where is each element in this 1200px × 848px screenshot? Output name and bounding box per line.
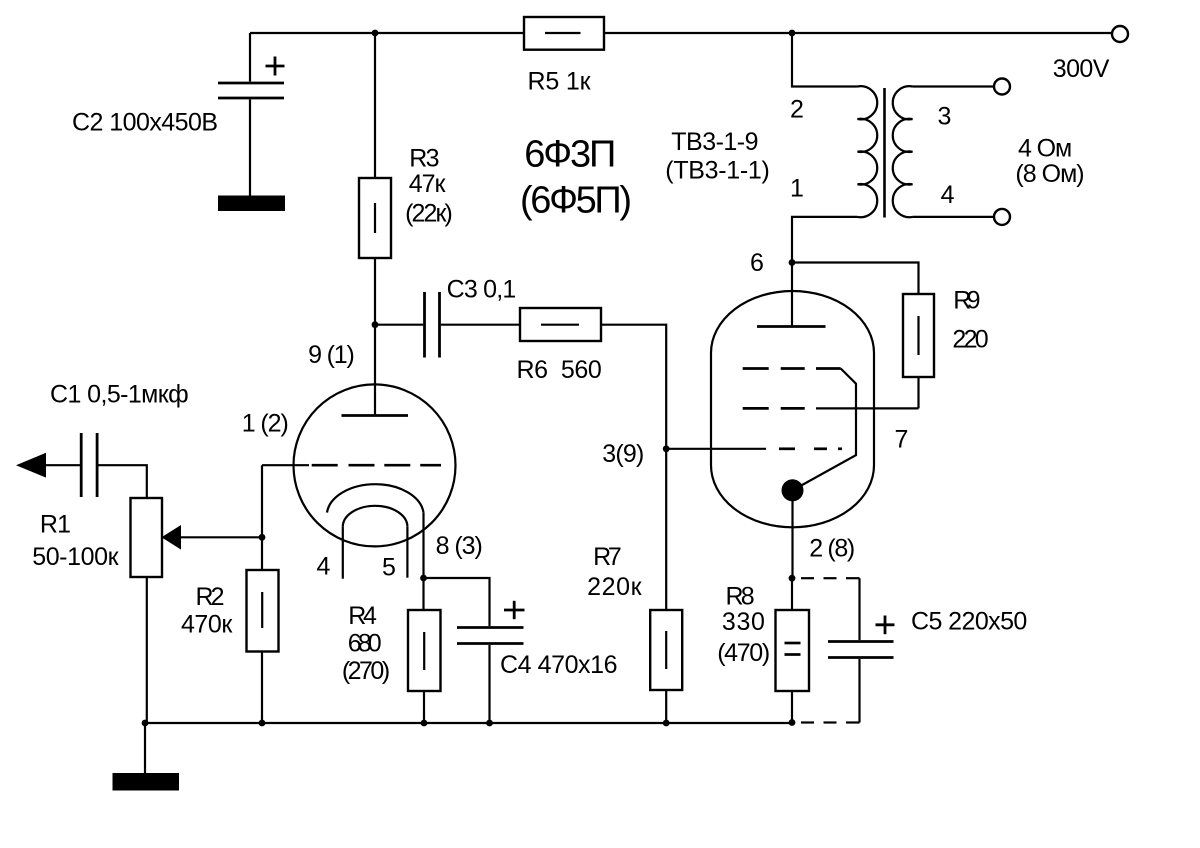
- tube V2 cathode dot: [782, 479, 804, 501]
- ground (main): [113, 773, 180, 791]
- svg-text:680: 680: [348, 630, 382, 658]
- capacitor C2: [218, 83, 284, 98]
- potentiometer R1: [131, 498, 163, 577]
- svg-text:1 (2): 1 (2): [242, 410, 289, 438]
- capacitor C1: [81, 433, 97, 497]
- node junction cathode V2 / R8: [789, 575, 796, 582]
- svg-text:6Ф3П: 6Ф3П: [524, 133, 616, 175]
- wire R3 bottom to tube anode: [374, 258, 376, 416]
- tube V1 cathode arc: [327, 484, 424, 512]
- svg-text:R2: R2: [196, 583, 225, 611]
- svg-text:220к: 220к: [587, 573, 643, 601]
- svg-text:R6 560: R6 560: [517, 356, 602, 384]
- node junction C4/ground: [486, 720, 493, 727]
- resistor R7: [650, 610, 682, 690]
- C4 plus sign: [504, 601, 525, 619]
- wire C1 to R1: [99, 465, 147, 498]
- svg-text:(22к): (22к): [405, 200, 453, 228]
- resistor R2: [247, 570, 279, 652]
- wire R2 bottom to ground bus: [261, 652, 263, 724]
- svg-text:4 Ом: 4 Ом: [1018, 134, 1072, 162]
- wire R8 bottom: [791, 691, 793, 723]
- svg-text:C2 100x450В: C2 100x450В: [72, 109, 218, 137]
- wire V2 cathode lead: [791, 490, 793, 578]
- transformer T1 secondary winding: [893, 86, 913, 217]
- svg-text:6: 6: [750, 249, 764, 277]
- wire V2 anode lead: [791, 263, 793, 327]
- resistor R3: [359, 178, 391, 258]
- svg-text:R7: R7: [593, 543, 622, 571]
- node junction top bus / R3: [372, 30, 379, 37]
- node junction R1/ground: [142, 720, 149, 727]
- svg-text:47к: 47к: [409, 170, 447, 198]
- transformer T1 primary winding: [858, 86, 878, 217]
- tube V1 triode envelope: [294, 384, 456, 546]
- wire to C3: [375, 324, 423, 326]
- tube V2 grid row 2 dashes: [743, 407, 805, 410]
- svg-text:5: 5: [382, 554, 396, 582]
- tube V2 pentode envelope: [711, 291, 874, 527]
- svg-text:C5 220x50: C5 220x50: [911, 607, 1027, 635]
- wire node 6 to R9: [792, 263, 919, 295]
- wire C2 top lead: [249, 33, 251, 82]
- svg-text:R3: R3: [409, 145, 439, 173]
- svg-text:9 (1): 9 (1): [308, 341, 355, 369]
- wire cathode to C4: [424, 578, 490, 626]
- svg-text:470к: 470к: [181, 611, 233, 639]
- svg-text:3: 3: [937, 103, 951, 131]
- resistor R9: [903, 294, 934, 377]
- ground (C2): [218, 196, 285, 212]
- svg-text:(6Ф5П): (6Ф5П): [520, 180, 632, 222]
- wire C3 to R6: [441, 324, 520, 326]
- svg-text:4: 4: [317, 552, 331, 580]
- svg-text:(8 Ом): (8 Ом): [1015, 160, 1084, 188]
- capacitor C3: [425, 292, 440, 358]
- svg-text:R5 1к: R5 1к: [528, 68, 592, 96]
- wire R9 bottom: [917, 377, 919, 408]
- wire cathode V2 to R8: [791, 578, 793, 610]
- svg-text:R1: R1: [40, 510, 71, 538]
- svg-text:1: 1: [790, 175, 804, 203]
- wire secondary top lead: [913, 85, 995, 87]
- wire top supply bus: [250, 32, 1112, 34]
- node junction R3 / C3: [372, 321, 379, 328]
- tube V1 heater arc: [343, 506, 408, 527]
- svg-text:2: 2: [790, 96, 804, 124]
- svg-text:C4 470x16: C4 470x16: [500, 651, 618, 679]
- resistor R4: [408, 610, 441, 691]
- wire C4 bottom: [488, 645, 490, 723]
- node junction R4/ground: [421, 720, 428, 727]
- wire secondary bottom lead: [913, 216, 995, 218]
- tube V2 grid row 1 dashes: [743, 367, 841, 370]
- svg-text:50-100к: 50-100к: [32, 543, 119, 571]
- wire input to C1: [46, 464, 80, 466]
- R1 wiper arrow: [181, 536, 262, 538]
- C2 plus sign: [266, 57, 285, 76]
- transformer core: [883, 88, 886, 218]
- svg-text:(ТВ3-1-1): (ТВ3-1-1): [665, 157, 770, 185]
- wire C2 bottom lead: [249, 100, 251, 196]
- tube V1 grid dashes: [312, 464, 441, 467]
- beam plate connector to cathode: [794, 369, 856, 490]
- node junction top bus / transformer: [789, 30, 796, 37]
- svg-text:220: 220: [952, 325, 988, 353]
- wire ground stem: [144, 723, 146, 773]
- dashed wire C5 top: [801, 577, 860, 579]
- wire ground bus: [145, 722, 792, 724]
- svg-text:4: 4: [941, 181, 955, 209]
- terminal secondary top: [994, 79, 1010, 95]
- tube V1 heater pin 4 lead: [342, 527, 344, 579]
- terminal 300V: [1112, 26, 1128, 42]
- wire R4 bottom: [423, 691, 425, 723]
- wire grid feed vertical: [261, 465, 263, 570]
- svg-text:ТВ3-1-9: ТВ3-1-9: [671, 128, 758, 156]
- svg-text:C1 0,5-1мкф: C1 0,5-1мкф: [50, 381, 189, 409]
- wire C5 bottom vertical: [858, 659, 860, 723]
- svg-text:8 (3): 8 (3): [436, 532, 483, 560]
- wire R3 top lead: [374, 33, 376, 178]
- input arrow: [16, 453, 46, 478]
- wire cathode V1: [422, 513, 424, 578]
- tube V2 anode plate: [757, 325, 826, 328]
- svg-text:300V: 300V: [1053, 55, 1110, 83]
- node junction grid2 tap: [663, 445, 670, 452]
- svg-text:330: 330: [722, 608, 765, 636]
- resistor R6: [520, 308, 601, 341]
- tube V1 anode plate: [342, 414, 409, 417]
- node junction cathode V1: [420, 575, 427, 582]
- capacitor C5: [828, 642, 894, 658]
- terminal secondary bottom: [994, 209, 1010, 225]
- tube V1 heater pin 5 lead: [406, 527, 408, 578]
- C5 plus sign: [876, 616, 895, 635]
- capacitor C4: [457, 628, 524, 644]
- wire R1 bottom to ground bus: [146, 577, 148, 723]
- dashed wire C5 bottom: [801, 721, 860, 723]
- node junction anode 6: [789, 259, 796, 266]
- wire R6 output down to ground: [601, 325, 666, 723]
- node junction R2/ground: [259, 720, 266, 727]
- svg-text:(470): (470): [717, 639, 770, 667]
- svg-text:2 (8): 2 (8): [809, 535, 855, 563]
- wire cathode to R4: [422, 578, 424, 610]
- svg-text:R4: R4: [348, 602, 377, 630]
- svg-text:3(9): 3(9): [602, 440, 644, 468]
- resistor R8: [776, 610, 810, 691]
- node junction R8/ground: [789, 719, 796, 726]
- tube V1 grid wire solid: [262, 464, 309, 466]
- wire screen grid pin 7 to R9: [816, 407, 919, 409]
- svg-text:7: 7: [895, 426, 909, 454]
- wire transformer primary top lead: [792, 33, 858, 87]
- svg-text:(270): (270): [342, 657, 390, 685]
- resistor R5: [524, 17, 604, 50]
- svg-text:C3 0,1: C3 0,1: [447, 276, 517, 304]
- tube V2 grid row 3 (control grid): [666, 448, 766, 450]
- node junction R7/ground: [663, 720, 670, 727]
- wire transformer primary bottom lead: [792, 217, 858, 263]
- wire C5 top vertical: [858, 578, 860, 640]
- svg-text:R9: R9: [953, 287, 980, 315]
- svg-text:R8: R8: [726, 582, 755, 610]
- node junction wiper / R2: [259, 534, 266, 541]
